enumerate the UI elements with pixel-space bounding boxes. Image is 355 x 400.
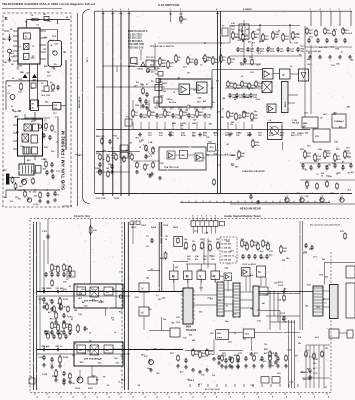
svg-text:5%: 5% [8, 85, 11, 87]
svg-text:1878: 1878 [114, 198, 120, 200]
svg-text:C148: C148 [42, 373, 48, 376]
svg-text:V150: V150 [75, 388, 81, 390]
svg-text:STAB REG DELETED: STAB REG DELETED [242, 170, 265, 173]
svg-text:SIG OEX: SIG OEX [303, 379, 312, 381]
svg-text:R 228 2k2: R 228 2k2 [222, 260, 233, 262]
svg-text:20B: 20B [160, 258, 164, 260]
svg-text:C4B: C4B [181, 154, 186, 157]
svg-text:STU: STU [315, 136, 320, 138]
svg-text:L2B: L2B [172, 123, 176, 125]
svg-text:AMPL: AMPL [284, 100, 287, 107]
svg-text:1/3/RG: 1/3/RG [297, 133, 304, 135]
svg-text:Stab: Stab [245, 333, 250, 336]
svg-text:48C: 48C [27, 159, 31, 162]
svg-text:R171: R171 [278, 282, 284, 284]
svg-text:470n: 470n [209, 353, 214, 356]
svg-text:mute: mute [217, 336, 223, 339]
svg-text:5%: 5% [18, 198, 21, 200]
svg-text:IS301: IS301 [162, 83, 168, 85]
svg-text:R206: R206 [173, 227, 179, 229]
svg-text:Tm: Tm [126, 117, 129, 119]
svg-text:C101: C101 [42, 231, 48, 233]
svg-text:C121: C121 [38, 299, 44, 301]
svg-text:C175: C175 [280, 313, 286, 315]
svg-text:R125: R125 [43, 303, 49, 305]
svg-text:D: D [283, 73, 285, 77]
svg-text:45C: 45C [3, 38, 7, 41]
svg-text:Gnd: Gnd [194, 231, 199, 233]
svg-text:10B: 10B [249, 57, 253, 59]
svg-text:C141: C141 [38, 356, 44, 359]
svg-text:TP1 10.7: TP1 10.7 [146, 57, 156, 59]
svg-text:C202: C202 [141, 225, 147, 227]
svg-text:5%: 5% [263, 361, 266, 363]
svg-text:5%: 5% [151, 153, 154, 155]
svg-text:R3 884 55GA: R3 884 55GA [128, 40, 143, 43]
svg-text:5%: 5% [185, 110, 188, 112]
svg-text:R122: R122 [63, 299, 69, 301]
svg-text:5%: 5% [325, 348, 328, 350]
svg-text:5%: 5% [324, 47, 327, 49]
svg-text:Circuit b. find: Circuit b. find [74, 215, 90, 218]
svg-text:5m Era: 5m Era [169, 102, 177, 104]
svg-text:TDA4940: TDA4940 [186, 329, 197, 332]
svg-text:5%: 5% [240, 62, 243, 64]
svg-text:AUX NF 21: AUX NF 21 [78, 96, 81, 108]
svg-text:5%: 5% [74, 343, 77, 345]
svg-text:5%: 5% [343, 30, 346, 32]
svg-text:+UB: +UB [204, 233, 209, 235]
svg-text:TELEFUNKEN CHASSIS 615A-C 9502: TELEFUNKEN CHASSIS 615A-C 9502 circuit d… [2, 2, 95, 6]
svg-text:MOD PLAN 615 C: MOD PLAN 615 C [128, 30, 148, 33]
svg-text:17C: 17C [53, 113, 57, 115]
svg-text:schem. b1: schem. b1 [62, 206, 73, 208]
svg-text:103 1 2B: 103 1 2B [96, 198, 106, 200]
svg-text:5%: 5% [216, 150, 219, 152]
svg-text:10C: 10C [54, 108, 58, 110]
svg-text:34R4: 34R4 [244, 96, 250, 99]
svg-text:TM 4e8: TM 4e8 [292, 122, 300, 125]
svg-text:S.AT SRPTCGR: S.AT SRPTCGR [158, 3, 179, 7]
svg-text:470n: 470n [255, 144, 260, 147]
svg-text:St: St [258, 271, 261, 274]
svg-text:C172: C172 [278, 285, 284, 287]
svg-text:V214 881 72W: V214 881 72W [128, 43, 145, 46]
svg-text:R83 1n: R83 1n [56, 346, 64, 348]
svg-text:See speed to swim after the R: See speed to swim after the R [310, 224, 340, 227]
svg-text:SUB TUN AM / FM 5902 M: SUB TUN AM / FM 5902 M [61, 131, 67, 190]
svg-text:C231 1n R232: C231 1n R232 [242, 264, 256, 266]
svg-text:E: E [5, 16, 8, 21]
svg-text:C 224 1n5: C 224 1n5 [222, 255, 233, 258]
svg-text:5%: 5% [264, 344, 267, 346]
svg-text:5%: 5% [210, 299, 213, 301]
svg-text:1 2B: 1 2B [148, 142, 153, 144]
svg-text:R201: R201 [131, 227, 137, 229]
svg-text:M: M [172, 274, 175, 278]
svg-text:A: A [25, 36, 27, 39]
svg-text:REL: REL [303, 123, 308, 125]
svg-text:A.SMB01: A.SMB01 [243, 8, 253, 11]
svg-text:D151: D151 [88, 388, 94, 390]
svg-text:L2B: L2B [192, 123, 196, 125]
svg-text:1a 2b: 1a 2b [33, 204, 39, 206]
svg-text:R60 C70: R60 C70 [96, 136, 105, 138]
svg-text:5%: 5% [212, 375, 215, 377]
svg-text:NF/02: NF/02 [137, 69, 144, 71]
svg-text:R53 2k2 C64 1n R54 10k: R53 2k2 C64 1n R54 10k [150, 45, 175, 48]
svg-text:R142: R142 [63, 356, 69, 359]
svg-text:C126: C126 [57, 303, 63, 305]
svg-text:C205: C205 [163, 225, 169, 227]
svg-text:M: M [186, 274, 189, 278]
svg-text:1W: 1W [106, 168, 109, 170]
svg-text:5%: 5% [295, 356, 298, 358]
svg-text:Audio Signal Module Team: Audio Signal Module Team [224, 214, 261, 218]
svg-text:5%: 5% [230, 124, 233, 126]
svg-text:10B: 10B [135, 105, 139, 107]
svg-text:470n: 470n [181, 134, 186, 137]
svg-text:HEAD AM REAR: HEAD AM REAR [240, 207, 261, 211]
svg-text:4C 12 4C 12 4C: 4C 12 4C 12 4C [205, 388, 221, 391]
svg-text:R2 216 111C: R2 216 111C [128, 38, 142, 40]
svg-text:47 C: 47 C [198, 383, 203, 386]
svg-text:5%: 5% [49, 288, 52, 290]
svg-text:R204: R204 [151, 226, 157, 229]
svg-text:V: V [142, 287, 144, 291]
svg-text:470n: 470n [270, 50, 275, 53]
svg-text:C144: C144 [58, 330, 64, 333]
svg-text:R1 215 722A: R1 215 722A [128, 33, 142, 36]
svg-text:MDA: MDA [186, 326, 192, 329]
svg-text:470n: 470n [295, 36, 300, 39]
svg-text:R149: R149 [52, 375, 58, 378]
svg-text:C 218 22n: C 218 22n [222, 248, 233, 250]
svg-text:49C: 49C [3, 169, 7, 172]
svg-text:5%: 5% [154, 348, 157, 350]
svg-text:Lt: Lt [11, 105, 13, 108]
svg-text:5%: 5% [136, 82, 139, 84]
